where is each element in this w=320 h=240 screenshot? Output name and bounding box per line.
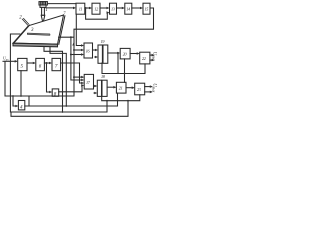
svg-text:6: 6 — [39, 65, 42, 70]
svg-text:2: 2 — [19, 15, 22, 20]
svg-text:19: 19 — [101, 39, 106, 44]
svg-text:7: 7 — [63, 10, 66, 15]
svg-text:16: 16 — [86, 48, 91, 53]
svg-text:Uвых: Uвых — [152, 52, 157, 61]
svg-text:11: 11 — [79, 6, 82, 11]
svg-text:20: 20 — [123, 52, 128, 57]
svg-text:13: 13 — [111, 6, 115, 11]
svg-text:22: 22 — [142, 56, 146, 61]
svg-text:21: 21 — [119, 86, 123, 91]
svg-text:12: 12 — [94, 6, 98, 11]
svg-text:1: 1 — [45, 8, 48, 13]
svg-text:17: 17 — [86, 80, 91, 85]
svg-text:15: 15 — [145, 6, 149, 11]
svg-text:14: 14 — [126, 6, 130, 11]
svg-text:Uвых: Uвых — [152, 83, 157, 92]
svg-text:7: 7 — [55, 65, 58, 70]
svg-text:18: 18 — [101, 74, 106, 79]
svg-text:5: 5 — [21, 65, 24, 70]
svg-text:23: 23 — [137, 87, 141, 92]
svg-text:Uвх: Uвх — [3, 56, 9, 62]
